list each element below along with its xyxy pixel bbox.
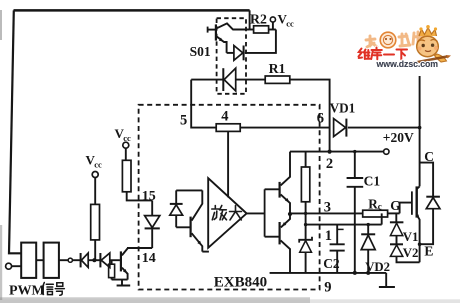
resistor R-out vertical from rail	[305, 152, 307, 167]
wire left frame (slightly skewed scan)	[9, 10, 21, 253]
phototransistor SO1 base tee	[207, 27, 209, 33]
wire R1 right down to VD1 anode node	[290, 80, 330, 152]
base bus vertical of push-pull pair	[264, 189, 266, 236]
wire Vcc to resistor	[94, 178, 96, 205]
wire node to diode	[73, 259, 81, 261]
diode VD2 from pin1 wire to bottom rail	[367, 225, 369, 234]
wire top loop of input stage	[176, 189, 202, 191]
svg-text:C1: C1	[364, 174, 381, 189]
wire pin1 jog up to gate node after Rc	[381, 213, 383, 224]
diode D-15 (points down) inside EXB840	[151, 200, 153, 215]
svg-text:PWM: PWM	[9, 283, 45, 298]
zener Z-out from output to bottom rail	[305, 213, 307, 239]
output mid wire (pin 3) to Rc	[290, 212, 363, 214]
wire emitter to amplifier lower input	[202, 251, 209, 253]
scan artifact left edge	[0, 225, 2, 300]
svg-text:3: 3	[324, 200, 331, 216]
wire diode2 to transistor base	[110, 259, 120, 261]
scan artifact bottom edge	[0, 297, 310, 303]
wire bus to T1 base	[265, 188, 279, 190]
wire resistor R-15 to pin 15	[127, 192, 153, 201]
transistor T2 (bottom PNP) base bar	[279, 222, 281, 244]
wire Rc to gate node	[388, 212, 400, 214]
resistor Rc	[363, 210, 388, 217]
op-amp 放大 amplifier triangle	[208, 178, 246, 248]
pin 1 tick	[337, 228, 343, 230]
capacitor C1 from +20V rail to bottom rail	[354, 152, 356, 178]
svg-text:VD1: VD1	[330, 100, 356, 115]
wire amplifier output to base bus	[247, 212, 265, 214]
transistor T1 (top NPN) base bar	[279, 182, 281, 198]
terminal +20V circle	[384, 149, 389, 154]
wire diode bottom to phototransistor base	[176, 226, 190, 228]
IGBT emitter	[417, 215, 420, 262]
resistor R2	[249, 10, 251, 29]
capacitor C2	[336, 225, 338, 244]
wire SO1 diode cathode up to R2/Vcc node	[245, 30, 276, 53]
wire resistor to input line	[94, 240, 96, 260]
svg-text:14: 14	[142, 251, 156, 266]
bottom rail (pin 9 line)	[270, 272, 387, 274]
resistor R-4 (horizontal at pin 4)	[216, 124, 240, 132]
label 放大 (hand-drawn strokes)	[212, 206, 242, 220]
phototransistor SO1 base bar	[215, 24, 217, 40]
svg-text:R1: R1	[269, 61, 286, 76]
svg-text:V2: V2	[403, 246, 419, 260]
diode SO1 series (points right) to Vcc node	[227, 52, 234, 54]
diode D-in-up (points up)	[175, 190, 177, 203]
svg-text:15: 15	[142, 189, 156, 204]
+20V rail inside box (pin 2 line)	[290, 151, 384, 153]
IGBT body bar	[416, 186, 418, 217]
svg-text:4: 4	[221, 109, 228, 125]
phototransistor Q-in base bar	[190, 217, 192, 238]
resistor R-b2 (base shunt, vertical small)	[111, 260, 113, 264]
transistor T2 collector to bottom rail	[281, 240, 290, 273]
junction dot resistor-zener on mid wire	[304, 212, 307, 215]
svg-text:C: C	[424, 149, 434, 164]
junction dot at Vcc resistor tap	[92, 258, 96, 262]
wire between shaper boxes	[36, 259, 43, 261]
transistor T2 emitter from output node with arrow	[281, 214, 290, 227]
wire Vcc2 to resistor	[125, 148, 127, 160]
freewheel diode branch	[420, 163, 434, 197]
pin 1 wire	[306, 224, 382, 226]
svg-text:cc: cc	[94, 160, 102, 170]
wire Q1 emitter bottom to resistor bottom	[112, 279, 128, 281]
svg-text:6: 6	[317, 110, 324, 126]
svg-text:9: 9	[324, 280, 331, 296]
IGBT gate bar	[411, 191, 413, 214]
ground stub below Q1	[121, 280, 123, 286]
resistor R-15 (vertical)	[122, 160, 131, 192]
transistor T1 collector to +20V rail	[281, 152, 290, 186]
svg-text:cc: cc	[286, 19, 294, 29]
wire Q1 collector to pin 14 line	[127, 247, 152, 249]
svg-text:R2: R2	[250, 12, 267, 27]
diode D-in2 (points left)	[99, 253, 101, 267]
svg-text:5: 5	[180, 112, 187, 128]
svg-text:EXB840: EXB840	[214, 275, 267, 291]
box pulse shaper 1	[21, 243, 36, 278]
junction dot VD1 wire at collector line	[418, 126, 422, 130]
wire bus to T2 base	[265, 236, 279, 238]
transistor Q1 collector	[122, 248, 128, 255]
wire V2 bottom to emitter line	[397, 256, 420, 262]
svg-text:2: 2	[326, 156, 333, 172]
phototransistor SO1 collector to R2 node	[217, 23, 250, 29]
svg-text:cc: cc	[123, 133, 131, 143]
node circle after shapers	[68, 258, 72, 262]
diode D-in1 (points left)	[80, 253, 82, 267]
transistor Q1 input buffer base bar	[120, 251, 122, 271]
svg-text:www.dzsc.com: www.dzsc.com	[376, 59, 439, 69]
svg-text:E: E	[424, 243, 433, 258]
svg-text:+20V: +20V	[383, 130, 414, 145]
IGBT gate lead	[400, 203, 411, 214]
wire pin 5 vertical entry	[191, 80, 216, 128]
phototransistor SO1 emitter with arrow	[217, 37, 227, 53]
diode VD1 (points right)	[334, 119, 346, 137]
resistor R-b1 (Vcc pull-up, vertical)	[91, 204, 100, 240]
wire R4 to pin 6 and VD1 node	[240, 127, 329, 129]
transistor Q1 emitter with arrow	[122, 268, 128, 280]
zener V2	[396, 236, 398, 244]
watermark dzsc.com logo	[359, 25, 452, 69]
svg-text:V1: V1	[403, 230, 419, 244]
wire R4 center down to amplifier	[227, 131, 229, 197]
LED SO1 (points left) on pin5 loop wire	[191, 79, 223, 81]
svg-text:VD2: VD2	[365, 260, 390, 274]
terminal Vcc right circle	[270, 17, 275, 22]
EXB840 hybrid IC dashed outline box	[139, 105, 320, 290]
SO1 optocoupler dashed box	[217, 18, 246, 94]
terminal Vcc left circle	[92, 172, 98, 178]
terminal PWM input circle	[6, 263, 12, 269]
svg-text:C2: C2	[323, 256, 340, 271]
svg-text:S01: S01	[190, 44, 211, 59]
svg-text:R: R	[368, 196, 378, 211]
wire top rail from left frame to R2 node	[14, 9, 250, 12]
resistor R1	[265, 76, 290, 83]
box pulse shaper 2	[44, 243, 59, 278]
ground stub at end of bottom rail	[385, 273, 387, 287]
output node junction dot	[288, 212, 292, 216]
phototransistor collector	[192, 190, 203, 220]
wire diode1 to diode2	[88, 259, 100, 261]
svg-text:G: G	[390, 198, 400, 213]
transistor T1 emitter with arrow to output node	[281, 194, 290, 213]
zener V1	[395, 213, 397, 222]
svg-text:1: 1	[325, 228, 332, 244]
phototransistor emitter with arrow	[192, 233, 203, 251]
svg-text:c: c	[378, 202, 382, 212]
wire shaper2 to node circle	[59, 259, 68, 261]
IGBT collector line vertical	[419, 76, 421, 186]
terminal Vcc mid circle	[123, 142, 129, 148]
